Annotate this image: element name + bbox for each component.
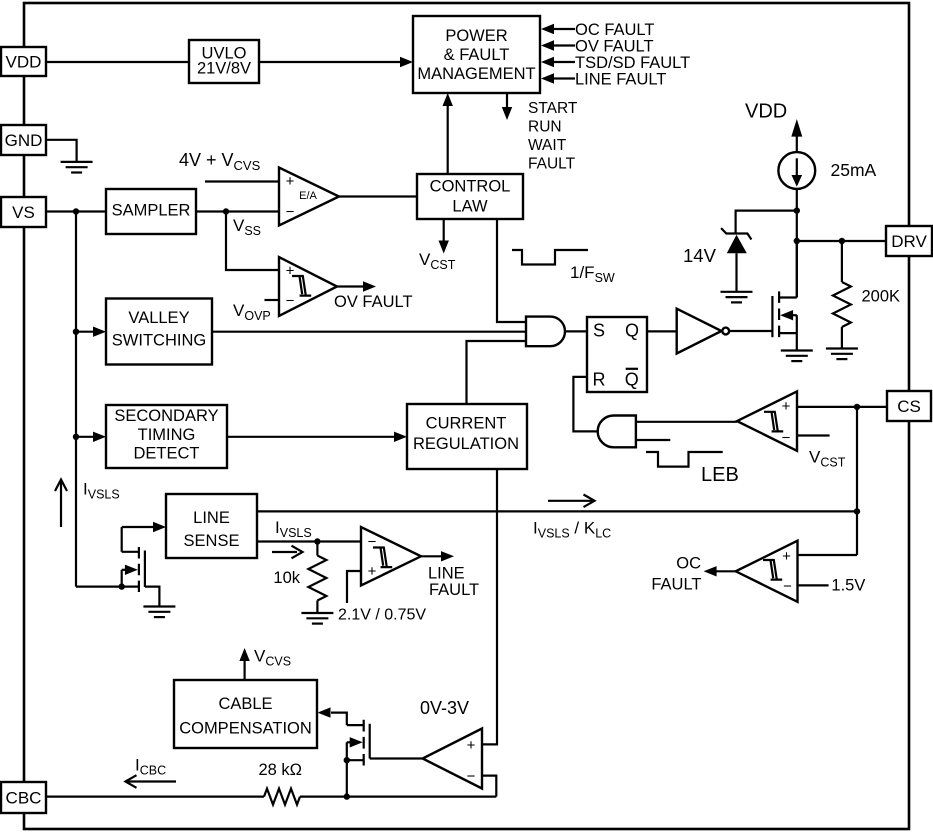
svg-text:+: + [286, 173, 295, 190]
svg-text:10k: 10k [273, 569, 300, 587]
svg-text:DETECT: DETECT [134, 445, 200, 463]
svg-text:VS: VS [12, 203, 35, 222]
arrow OV FAULT output [337, 281, 376, 291]
wire to zener [736, 211, 797, 234]
block VALLEY SWITCHING [106, 299, 212, 365]
svg-text:VCVS: VCVS [254, 647, 291, 669]
svg-text:VCST: VCST [419, 250, 456, 272]
wire LINE SENSE to 10k divider [257, 540, 361, 542]
block CURRENT REGULATION [407, 404, 527, 469]
OC FAULT input arrow [541, 21, 654, 39]
svg-text:1.5V: 1.5V [831, 577, 865, 595]
label IVSLS at bus [83, 480, 120, 502]
ground at line sense MOSFET [143, 607, 175, 618]
svg-text:FAULT: FAULT [651, 576, 701, 594]
svg-text:VDD: VDD [745, 101, 787, 123]
label IVSLS / KLC [533, 519, 611, 541]
waveform LEB [646, 452, 723, 467]
wire UVLO to POWER block [259, 57, 413, 67]
label 4V + VCVS [179, 150, 261, 173]
node at VS bus [73, 208, 79, 214]
svg-text:+: + [368, 563, 377, 580]
block SECONDARY TIMING DETECT [106, 405, 227, 468]
svg-text:LAW: LAW [452, 198, 488, 216]
wire current source to drain node [796, 189, 798, 298]
label VDD rail [745, 101, 787, 123]
svg-text:OV FAULT: OV FAULT [334, 293, 413, 311]
wire AND2 to latch R [573, 377, 597, 432]
pin GND [1, 125, 46, 155]
label LINE FAULT [428, 565, 479, 600]
label IVSLS at divider [275, 518, 312, 540]
svg-text:TIMING: TIMING [138, 426, 196, 444]
label LEB [701, 464, 739, 486]
svg-text:−: − [783, 578, 792, 595]
node zener branch [794, 207, 800, 213]
svg-text:ICBC: ICBC [135, 756, 166, 778]
resistor 28 kOhm [259, 761, 303, 805]
LINE FAULT input arrow [541, 71, 666, 89]
op-amp 0V-3V buffer [423, 729, 482, 789]
power MOSFET Q1 [772, 241, 796, 351]
state output arrow START RUN WAIT FAULT [502, 93, 578, 172]
label VSS [233, 216, 261, 238]
label OV FAULT [334, 293, 413, 311]
arrow CONTROL LAW to VCST [439, 219, 449, 254]
svg-text:+: + [782, 548, 791, 565]
block POWER & FAULT MANAGEMENT U1 [413, 16, 540, 93]
svg-text:LINE FAULT: LINE FAULT [575, 71, 666, 89]
VS bus vertical wire [75, 212, 77, 587]
wire inverter to gate of power MOSFET [729, 330, 772, 332]
svg-text:CABLE: CABLE [218, 695, 272, 713]
svg-text:0V-3V: 0V-3V [420, 698, 469, 718]
ground at GND pin [46, 140, 93, 173]
svg-text:+: + [467, 737, 476, 754]
wire buffer output to MOSFET gate [370, 757, 423, 759]
svg-text:S: S [593, 321, 605, 341]
node 200K branch [839, 238, 845, 244]
svg-text:R: R [593, 370, 606, 390]
svg-text:+: + [782, 398, 791, 415]
label VCST [419, 250, 456, 272]
svg-text:VOVP: VOVP [233, 301, 271, 323]
inverter U4 [677, 309, 729, 354]
svg-text:OV FAULT: OV FAULT [575, 38, 654, 56]
zener diode 14V [721, 228, 751, 291]
pin CBC [1, 782, 46, 813]
arrow current direction IVSLS [272, 546, 303, 559]
svg-text:WAIT: WAIT [528, 137, 567, 154]
wire CS pin to comparator [797, 406, 886, 408]
svg-text:LINE: LINE [428, 565, 465, 583]
svg-text:1/FSW: 1/FSW [570, 263, 615, 285]
svg-text:& FAULT: & FAULT [444, 46, 510, 64]
wire resistor to buffer node [300, 795, 496, 797]
svg-text:CONTROL: CONTROL [430, 178, 511, 196]
svg-text:SENSE: SENSE [184, 532, 240, 550]
svg-text:SECONDARY: SECONDARY [114, 407, 218, 425]
svg-text:−: − [286, 204, 295, 221]
wire CS comparator output to AND2 [636, 421, 737, 423]
svg-text:IVSLS: IVSLS [83, 480, 120, 502]
arrow into CABLE COMPENSATION [318, 707, 331, 717]
svg-text:14V: 14V [683, 245, 717, 266]
pin DRV [886, 226, 932, 256]
wire bus to line sense MOSFET [76, 585, 122, 587]
comparator OVP [279, 257, 337, 316]
svg-text:SAMPLER: SAMPLER [112, 202, 191, 220]
arrow IVSLS up [55, 480, 67, 528]
svg-text:MANAGEMENT: MANAGEMENT [417, 65, 535, 83]
node CBC feedback [344, 793, 350, 799]
arrow current direction KLC [548, 495, 595, 508]
block CABLE COMPENSATION [174, 680, 317, 748]
ground at power MOSFET source [781, 351, 813, 362]
wire AND to latch S [565, 330, 587, 332]
svg-text:−: − [467, 768, 476, 785]
op-amp E/A [279, 168, 339, 226]
ground at 10k [301, 613, 333, 624]
ground at 200K [826, 349, 858, 360]
pin VDD [1, 47, 46, 76]
AND gate U2 [526, 317, 565, 347]
wire CS node down to OC comparator [856, 407, 858, 555]
AND gate U5 leading edge blanking [598, 416, 636, 448]
arrow MOSFET to LINE SENSE [122, 522, 166, 532]
label 2.1V / 0.75V [338, 607, 426, 624]
node at MOSFET source [119, 583, 125, 589]
svg-text:VDD: VDD [6, 53, 42, 72]
wire E/A output to CONTROL LAW [339, 195, 417, 197]
stub VOVP inverting input [265, 299, 280, 301]
stub 1.5V inverting input [798, 577, 866, 595]
arrow into SECONDARY TIMING DETECT [76, 432, 106, 442]
node IVSLS KLC branch [854, 508, 860, 514]
node DRV wire [794, 238, 800, 244]
svg-text:25mA: 25mA [831, 160, 877, 180]
wire CONTROL LAW to AND gate [497, 219, 526, 322]
wire OC comparator noninverting input [798, 554, 858, 556]
pin VS [1, 197, 46, 227]
svg-text:TSD/SD FAULT: TSD/SD FAULT [575, 54, 690, 72]
label 25mA [831, 160, 877, 180]
comparator CS peak current [737, 391, 797, 450]
svg-text:Q: Q [625, 370, 639, 390]
wire noninverting input of E/A [205, 180, 279, 182]
svg-text:4V + VCVS: 4V + VCVS [179, 150, 261, 173]
wire VS to SAMPLER [46, 210, 106, 212]
wire SAMPLER to E/A inverting input [196, 210, 279, 212]
node at cc MOSFET source [344, 757, 350, 763]
wire LINE SENSE to KLC row [257, 510, 857, 512]
resistor 10k [273, 542, 326, 614]
svg-text:21V/8V: 21V/8V [197, 60, 251, 78]
OV FAULT input arrow [541, 38, 654, 56]
block SAMPLER [106, 189, 196, 234]
svg-text:2.1V / 0.75V: 2.1V / 0.75V [338, 607, 426, 624]
wire feedback inverting input [482, 776, 496, 797]
arrow LINE FAULT output [421, 551, 454, 561]
svg-text:200K: 200K [862, 288, 901, 306]
svg-text:REGULATION: REGULATION [413, 435, 519, 453]
stub LEB input [636, 439, 670, 441]
block LINE SENSE [166, 494, 257, 558]
label OC FAULT [651, 555, 701, 594]
svg-text:−: − [286, 293, 295, 310]
line sense MOSFET Q2 [122, 527, 160, 606]
svg-text:E/A: E/A [299, 190, 317, 202]
svg-text:FAULT: FAULT [429, 581, 479, 599]
arrow SECONDARY to CURRENT REGULATION [227, 432, 407, 442]
svg-text:RUN: RUN [528, 119, 562, 136]
arrow CONTROL LAW to POWER block [443, 93, 453, 174]
node VSS [223, 208, 229, 214]
ground at zener [721, 292, 753, 303]
arrow into VALLEY SWITCHING [76, 327, 106, 337]
svg-text:FAULT: FAULT [528, 155, 576, 172]
arrow VCVS output [239, 648, 249, 680]
svg-text:Q: Q [625, 321, 639, 341]
svg-text:LINE: LINE [193, 509, 230, 527]
wire VALLEY SWITCHING to AND gate [212, 331, 526, 333]
wire latch Q to inverter [647, 330, 677, 332]
label VCVS [254, 647, 291, 669]
current source 25mA [778, 152, 815, 189]
svg-text:DRV: DRV [891, 232, 927, 251]
node CS branch [854, 404, 860, 410]
svg-text:LEB: LEB [701, 464, 739, 486]
comparator LINE FAULT [361, 527, 421, 586]
wire CURRENT REGULATION to 0V-3V buffer [482, 469, 497, 744]
waveform 1/FSW [512, 250, 615, 285]
arrow current direction ICBC [126, 775, 177, 788]
label ICBC [135, 756, 166, 778]
TSD/SD FAULT input arrow [541, 54, 690, 72]
wire node to DRV pin [797, 240, 886, 242]
wire 2.1V reference to comparator [347, 571, 361, 603]
stub VCST inverting input [797, 434, 830, 436]
wire CURRENT REGULATION to AND gate [467, 341, 527, 404]
SR latch U3 [587, 317, 647, 392]
svg-text:VSS: VSS [233, 216, 261, 238]
label 0V-3V [420, 698, 469, 718]
node at SECONDARY branch [73, 434, 79, 440]
svg-text:POWER: POWER [445, 27, 507, 45]
svg-text:OC: OC [676, 555, 701, 573]
svg-text:START: START [528, 100, 578, 117]
node at VALLEY branch [73, 329, 79, 335]
svg-text:VALLEY: VALLEY [128, 309, 189, 327]
label VCST at comparator [809, 448, 846, 470]
svg-text:OC FAULT: OC FAULT [575, 21, 654, 39]
comparator OC [736, 541, 798, 602]
cable comp MOSFET Q3 [331, 713, 370, 797]
node at 10k [314, 538, 320, 544]
svg-text:SWITCHING: SWITCHING [112, 332, 206, 350]
wire VDD to UVLO [46, 61, 189, 63]
arrow OC FAULT output [704, 566, 736, 576]
block CONTROL LAW [417, 174, 523, 219]
pin CS [887, 391, 931, 421]
svg-text:CBC: CBC [6, 789, 42, 808]
svg-text:IVSLS / KLC: IVSLS / KLC [533, 519, 611, 541]
svg-text:COMPENSATION: COMPENSATION [179, 720, 312, 738]
resistor 200K [833, 241, 900, 349]
label 14V [683, 245, 717, 266]
svg-text:GND: GND [5, 131, 43, 150]
svg-text:CURRENT: CURRENT [426, 415, 507, 433]
svg-text:CS: CS [897, 397, 921, 416]
block UVLO 21V/8V [189, 40, 259, 83]
arrow to VDD rail [791, 119, 802, 152]
wire VSS node to OVP comparator [226, 212, 279, 271]
svg-text:VCST: VCST [809, 448, 846, 470]
svg-text:IVSLS: IVSLS [275, 518, 312, 540]
svg-text:28 kΩ: 28 kΩ [259, 761, 303, 779]
label VOVP [233, 301, 271, 323]
wire CBC pin to resistor [46, 795, 264, 797]
